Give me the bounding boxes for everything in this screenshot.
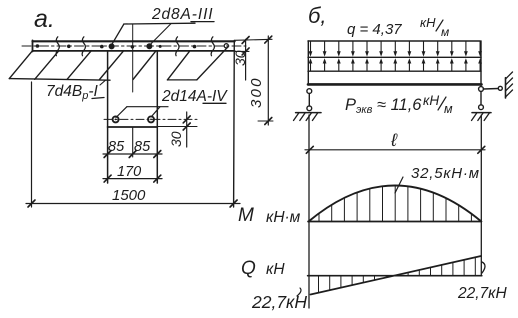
load middle line	[308, 56, 481, 58]
beam	[308, 83, 482, 86]
left extension line of 1500 dim	[31, 82, 33, 207]
slab left edge	[32, 40, 34, 51]
underline of IV	[203, 102, 226, 104]
svg-text:22,7кH: 22,7кH	[457, 285, 507, 302]
ground hatch stroke	[300, 113, 306, 121]
load arrow up 11	[451, 60, 453, 71]
rebar dot w5	[159, 45, 162, 48]
right support lower circle	[479, 105, 484, 110]
rebar dot w1 (4mm wire)	[36, 44, 40, 48]
hatch line h7	[197, 47, 228, 80]
load arrow down 7	[394, 42, 396, 55]
underline of I	[92, 98, 104, 99]
slab axis dash-dot line	[22, 45, 246, 47]
leader 2d14 horizontal	[127, 106, 168, 108]
svg-text:кH: кH	[420, 15, 436, 30]
rebar dot w4	[131, 45, 135, 49]
load arrow down 8	[408, 42, 410, 55]
svg-text:M: M	[238, 205, 254, 226]
break mark 2	[82, 37, 85, 56]
leader 7d4 to hatch line	[100, 80, 106, 85]
rebar bar B1 (8mm)	[109, 43, 115, 49]
right support link down	[480, 91, 482, 105]
svg-text:170: 170	[117, 164, 141, 180]
hatch line h5	[133, 51, 156, 80]
M diagram hatch verticals	[319, 186, 471, 222]
right support: hinge circle	[479, 87, 484, 92]
svg-text:2d14A-IV: 2d14A-IV	[161, 88, 228, 105]
svg-text:85: 85	[108, 139, 125, 155]
wall hinge circle	[498, 86, 502, 90]
rebar bar B2 (8mm)	[146, 43, 152, 49]
ground hatch stroke	[294, 113, 300, 121]
dim line 85+85	[103, 153, 162, 155]
stub at bottom of 300 dim	[258, 120, 273, 122]
wall line	[505, 78, 507, 98]
wire leader 2d8: branch to left 8mm bar	[111, 24, 124, 46]
rib centre line (vertical)	[132, 24, 134, 92]
bar axis dash-dot (14mm bars)	[104, 118, 197, 120]
ground hatch stroke	[484, 113, 490, 121]
load top line	[308, 40, 480, 42]
load arrow up 4	[352, 60, 354, 71]
rebar dot w6	[193, 45, 197, 49]
dim 300: vertical line	[267, 36, 269, 125]
ground hatch stroke	[472, 113, 478, 121]
hatch line h2	[35, 51, 59, 80]
hatch line h1	[9, 51, 32, 79]
left support: hinge circle	[307, 89, 312, 94]
rib left edge	[107, 51, 109, 183]
dim line l (span)	[305, 149, 485, 151]
load bottom line	[308, 70, 481, 72]
load arrow down 4	[352, 42, 354, 55]
svg-text:кH: кH	[423, 93, 439, 108]
svg-text:Pэкв ≈ 11,6: Pэкв ≈ 11,6	[345, 96, 422, 116]
dim line 170	[103, 178, 162, 180]
slab bottom extension	[235, 50, 249, 52]
left end vertical of load block	[307, 41, 309, 85]
load arrow down 10	[437, 42, 439, 55]
tick	[154, 151, 161, 158]
load arrow up 10	[437, 60, 439, 71]
load arrow down 6	[380, 42, 382, 55]
ground hatch stroke	[306, 113, 312, 121]
svg-text:30: 30	[168, 131, 184, 147]
M baseline	[308, 221, 481, 223]
tick	[183, 116, 190, 123]
M parabola	[309, 186, 482, 222]
hatch line h6	[167, 51, 189, 80]
load arrow down 5	[366, 42, 368, 55]
load arrow down 12	[465, 42, 467, 55]
right support ground line	[472, 112, 491, 114]
tick	[104, 151, 111, 158]
svg-text:2d8A-III: 2d8A-III	[151, 6, 213, 23]
dim 30 slab: vertical line	[245, 39, 247, 80]
load arrow down 1	[310, 42, 312, 55]
leader 2d14 branch right	[152, 107, 161, 117]
svg-text:a.: a.	[34, 5, 55, 33]
break mark 4	[211, 37, 214, 56]
curl at right end	[482, 262, 485, 273]
right end vertical of load block	[480, 41, 482, 86]
tick	[129, 151, 136, 158]
wall hatch stroke	[506, 78, 513, 85]
slab right edge / right extension line down to 1500 dim	[233, 40, 236, 207]
wall hatch stroke	[506, 72, 513, 79]
slab top extension to 300-dim	[235, 39, 272, 40]
rib bottom extension right	[157, 126, 197, 128]
tick	[478, 146, 485, 153]
load arrow up 8	[408, 60, 410, 71]
slab bottom line	[33, 50, 235, 52]
rebar dot w7 (open)	[224, 44, 228, 48]
rib right edge	[156, 51, 158, 183]
load arrow up 1	[310, 60, 312, 71]
svg-text:ℓ: ℓ	[390, 130, 398, 150]
rebar dot w3	[100, 45, 104, 49]
Q baseline	[308, 275, 482, 277]
svg-text:кH: кH	[266, 261, 285, 278]
load arrow down 2	[324, 42, 326, 55]
load arrow up 2	[324, 60, 326, 71]
hatch bottom line left	[9, 79, 110, 81]
leader 32,5	[395, 177, 403, 193]
tick	[265, 118, 272, 125]
left extension line (span)	[308, 115, 310, 308]
tick	[242, 48, 249, 55]
tick	[28, 200, 35, 207]
horizontal link to wall	[483, 88, 498, 91]
tick	[242, 37, 249, 44]
left support link	[308, 94, 310, 107]
bar circle 14mm right	[148, 116, 154, 122]
load arrow up 12	[465, 60, 467, 71]
svg-text:Q: Q	[241, 258, 256, 279]
leader 2d14 branch left	[116, 107, 127, 118]
rib bottom line	[108, 126, 158, 128]
left support ground line	[296, 112, 321, 114]
svg-text:30: 30	[232, 50, 248, 66]
Q shear line	[311, 256, 482, 295]
tick	[230, 200, 237, 207]
wall hatch stroke	[506, 84, 513, 91]
break mark 3	[176, 37, 179, 56]
load arrow down 11	[451, 42, 453, 55]
svg-text:85: 85	[134, 139, 151, 155]
load arrow down 13	[479, 42, 481, 55]
wire leader 2d8: horizontal	[124, 22, 195, 25]
tick	[104, 175, 111, 182]
hatch line h3	[67, 51, 91, 80]
load arrow up 3	[338, 60, 340, 71]
svg-text:м: м	[444, 102, 453, 116]
Q diagram hatch verticals	[319, 257, 476, 292]
load arrow up 6	[380, 60, 382, 71]
load arrow up 5	[366, 60, 368, 71]
tick	[306, 146, 313, 153]
wire leader 2d8: branch to right 8mm bar	[150, 24, 171, 45]
svg-text:7d4Bp-I: 7d4Bp-I	[46, 83, 98, 102]
svg-text:q = 4,37: q = 4,37	[347, 21, 402, 38]
centre extension for 85 dim	[132, 127, 134, 157]
ground hatch stroke	[312, 113, 318, 121]
slab top line	[33, 40, 235, 42]
tick	[183, 123, 190, 130]
dim line 1500	[26, 203, 240, 205]
load arrow down 9	[423, 42, 425, 55]
dim 30 bar-cover: vertical line	[186, 112, 188, 147]
load arrow up 13	[479, 60, 481, 71]
load arrow up 7	[394, 60, 396, 71]
wall hatch stroke	[506, 90, 513, 97]
underline of III	[191, 21, 214, 23]
right extension line (span)	[480, 115, 482, 276]
tick	[154, 175, 161, 182]
load arrow up 9	[423, 60, 425, 71]
tick	[265, 36, 272, 43]
hatch bottom line right	[167, 79, 196, 81]
bar circle 14mm left	[113, 116, 119, 122]
rebar dot w2	[67, 45, 71, 49]
hatch line h4	[100, 51, 124, 80]
break mark 1	[56, 37, 59, 56]
svg-text:б,: б,	[308, 3, 327, 28]
svg-text:м: м	[441, 25, 449, 39]
svg-text:1500: 1500	[112, 187, 146, 204]
svg-text:кH·м: кH·м	[266, 209, 301, 226]
svg-text:300: 300	[248, 76, 265, 108]
left support lower circle	[307, 106, 312, 111]
svg-text:32,5кH·м: 32,5кH·м	[411, 165, 480, 182]
curl above left label	[297, 288, 301, 296]
load arrow down 3	[338, 42, 340, 55]
ground hatch stroke	[478, 113, 484, 121]
